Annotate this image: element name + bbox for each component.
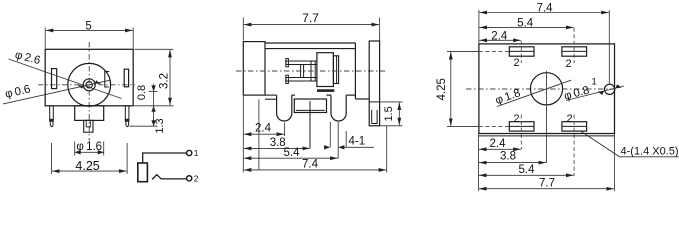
pad4 vertical centerline — [573, 115, 575, 176]
inner contact bar — [105, 72, 110, 88]
body top inner line — [265, 48, 355, 50]
horizontal centerline — [466, 88, 616, 90]
dim 5.4 line — [479, 26, 573, 28]
dim 7.7 line — [244, 24, 379, 26]
top pads centerline — [447, 50, 479, 52]
center pin tab — [84, 120, 93, 132]
svg-text:φ 0.8: φ 0.8 — [563, 84, 591, 102]
pad 2 — [562, 47, 587, 56]
dim 7.7 extensions — [242, 18, 244, 41]
pad3 vertical centerline — [520, 115, 522, 150]
circle vertical line / 3.8 extension — [546, 71, 548, 163]
dim 1.3 extension — [130, 125, 158, 127]
body top outer line — [265, 42, 355, 44]
body inner right wall — [354, 43, 356, 99]
dim 3.2 extensions — [134, 48, 173, 50]
svg-text:3.8: 3.8 — [500, 151, 516, 163]
svg-text:5.4: 5.4 — [284, 147, 301, 159]
dim 5.4 bottom line — [479, 174, 574, 176]
dim 2.4 bottom line — [479, 148, 521, 150]
dim 5.4 extension — [337, 122, 339, 159]
dim 5.4 line — [244, 157, 338, 159]
svg-text:4-(1.4 X0.5): 4-(1.4 X0.5) — [621, 146, 679, 158]
dim 5 line — [46, 29, 133, 31]
thick bar under block — [317, 89, 334, 92]
dim 2.4 line — [244, 133, 284, 135]
dim 4-1 underline — [344, 146, 374, 148]
center pin lead — [309, 101, 311, 148]
dim phi1.6 line — [75, 151, 104, 153]
dim 2.4 line — [479, 39, 520, 41]
pad2 vertical centerline — [573, 28, 575, 63]
svg-text:2: 2 — [513, 113, 519, 125]
body outline — [479, 44, 615, 134]
dim 7.7 bottom line — [479, 188, 614, 190]
svg-text:4.25: 4.25 — [75, 159, 99, 173]
dim 1.5 extensions — [380, 101, 403, 103]
left lug — [52, 69, 57, 89]
pad size leader — [581, 131, 679, 157]
dim 3.2 line — [169, 50, 171, 106]
svg-text:1: 1 — [194, 148, 199, 158]
dim 3.8 line — [244, 147, 310, 149]
left reference extension — [242, 96, 244, 173]
pin1 circle phi0.8 — [605, 84, 615, 94]
right pin — [125, 106, 129, 121]
left ear — [243, 42, 265, 96]
vertical centerline — [88, 42, 90, 141]
svg-text:2.4: 2.4 — [491, 30, 508, 42]
rail end caps — [286, 59, 289, 67]
leader phi0.6 with arrows at ring — [3, 80, 110, 104]
right lug — [124, 69, 128, 87]
dim 7.4 right extension — [608, 10, 610, 85]
shelf extension line — [258, 99, 260, 170]
svg-text:4-1: 4-1 — [349, 135, 366, 147]
right ear slot — [372, 110, 377, 124]
bottom dims left extension — [478, 134, 480, 191]
dim 3.8 bottom line — [479, 162, 546, 164]
terminal 2 circle — [187, 176, 192, 181]
dim 0.8 extension — [149, 90, 158, 92]
contact rails — [286, 61, 317, 65]
svg-text:4.25: 4.25 — [436, 78, 448, 100]
svg-text:2: 2 — [565, 58, 571, 70]
svg-text:1.5: 1.5 — [383, 106, 395, 121]
center pin hole — [86, 82, 92, 88]
body outline — [45, 49, 133, 106]
center pin ring — [83, 79, 95, 91]
svg-text:1.3: 1.3 — [154, 118, 166, 133]
top dims left extension — [478, 10, 480, 44]
svg-text:0.8: 0.8 — [136, 85, 148, 100]
pad1 vertical centerline — [520, 41, 522, 63]
leader phi2.6 — [9, 59, 122, 99]
dim 4.25 extensions — [51, 143, 53, 174]
dim phi1.6 extensions — [74, 142, 76, 156]
bottom second line — [479, 135, 615, 137]
svg-text:7.7: 7.7 — [302, 11, 319, 25]
svg-text:5: 5 — [85, 21, 91, 33]
horizontal centerline — [38, 84, 135, 86]
right ear — [369, 41, 379, 126]
svg-text:7.7: 7.7 — [539, 178, 555, 190]
plunger block — [317, 53, 334, 87]
pad 4 — [562, 122, 587, 131]
bottom dims right extension — [613, 134, 615, 191]
plunger nose — [333, 56, 338, 84]
dim 4.25 line — [450, 52, 452, 126]
leg 2 — [331, 95, 346, 121]
tongue — [294, 99, 326, 113]
svg-text:2.4: 2.4 — [490, 138, 507, 150]
dim 1.5 line — [398, 102, 400, 125]
svg-text:5.4: 5.4 — [517, 17, 534, 29]
svg-text:2: 2 — [513, 57, 519, 69]
svg-text:7.4: 7.4 — [537, 2, 554, 14]
svg-text:φ 1.8: φ 1.8 — [494, 87, 522, 107]
dim 7.4 line — [244, 169, 386, 171]
center contact rectangle — [138, 163, 148, 182]
svg-text:φ 2.6: φ 2.6 — [14, 49, 42, 67]
switch lever — [152, 175, 161, 180]
barrel circle — [68, 63, 111, 106]
wire to pin 1 — [143, 153, 187, 163]
dim 1.3 line — [153, 106, 155, 126]
dim 2.4 extension — [284, 123, 286, 137]
leader phi1.8 — [497, 80, 571, 106]
svg-text:2.4: 2.4 — [255, 123, 272, 135]
leader phi0.8 — [566, 86, 624, 101]
terminal 1 circle — [187, 150, 192, 155]
svg-text:7.4: 7.4 — [302, 158, 319, 170]
pad 3 — [509, 122, 534, 131]
svg-text:φ 1.6: φ 1.6 — [76, 141, 102, 153]
body bottom segments — [292, 94, 295, 96]
dim 7.4 extension — [386, 126, 388, 173]
pad mid lines — [509, 50, 534, 52]
left pin — [50, 106, 54, 121]
middle rung — [301, 65, 304, 78]
dim 0.8 line with outside arrows — [153, 84, 155, 91]
pad 1 — [509, 47, 534, 56]
barrel circle phi1.8 — [530, 73, 562, 105]
wire to pin 2 — [161, 178, 186, 180]
svg-text:3.2: 3.2 — [158, 73, 170, 89]
dim 4.25 line — [52, 170, 127, 172]
right bar — [311, 61, 315, 81]
svg-text:2: 2 — [566, 113, 572, 125]
dim 4-1 arrows — [324, 145, 330, 149]
svg-text:5.4: 5.4 — [519, 164, 536, 176]
left shelf double line — [265, 94, 277, 96]
svg-text:1: 1 — [592, 77, 597, 88]
right shelf line — [355, 98, 369, 100]
bottom pads centerline — [447, 125, 479, 127]
shaft block — [75, 106, 104, 121]
dim 5 extension lines — [44, 28, 46, 49]
svg-text:2: 2 — [194, 173, 199, 183]
dim 4-1 extensions — [329, 122, 331, 147]
dim 7.4 line — [479, 12, 608, 14]
leg 1 — [277, 95, 292, 121]
middle centerline — [236, 70, 385, 72]
